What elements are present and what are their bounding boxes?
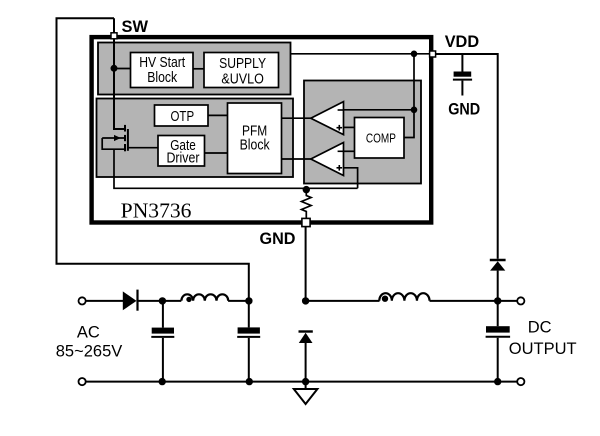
node: C1 junction <box>159 297 166 304</box>
capacitor C2 filter <box>237 301 260 382</box>
svg-text:Driver: Driver <box>167 151 200 167</box>
wire: Gate Driver to PFM Block <box>205 152 228 154</box>
wire: SW node to HV Start Block <box>114 68 131 70</box>
pin VDD <box>430 51 436 57</box>
block: HV Start Block <box>131 53 194 88</box>
svg-text:SW: SW <box>122 18 149 36</box>
node: comparator feedback junction <box>411 107 418 114</box>
terminal: DC output minus <box>517 378 524 385</box>
terminal: AC input bottom <box>79 378 86 385</box>
wire: inductor to DC output <box>430 300 498 302</box>
wire: to DC+ terminal <box>498 300 517 302</box>
diode D1 input rectifier <box>123 290 138 311</box>
wire: comparator2 non-inverting input to sense node <box>344 168 358 189</box>
wire: SW terminal loop to switching node <box>57 18 249 301</box>
wire: comparator1 non-inverting input <box>344 126 355 128</box>
node: C1 bottom junction <box>159 378 166 385</box>
wire: HV Start Block to SUPPLY&UVLO <box>193 68 204 70</box>
inductor L1 input filter <box>181 294 228 302</box>
block: SUPPLY & UVLO <box>204 53 279 88</box>
wire: comparator1 inverting input <box>344 109 415 111</box>
node: ground junction <box>302 378 309 385</box>
ground <box>294 382 318 404</box>
wire: OTP to PFM Block <box>208 114 228 116</box>
terminal: DC output plus <box>517 297 524 304</box>
svg-text:SUPPLY: SUPPLY <box>219 56 266 72</box>
wire: filter to switching node <box>228 300 249 302</box>
wire: AC top rail <box>86 300 123 302</box>
svg-text:GND: GND <box>448 101 480 119</box>
capacitor C1 input filter <box>151 301 174 382</box>
svg-text:DC: DC <box>528 319 552 337</box>
svg-text:Block: Block <box>240 137 271 153</box>
svg-text:&UVLO: &UVLO <box>221 71 264 87</box>
wire: comparator2 inverting input <box>344 150 355 152</box>
block: COMP <box>355 118 405 159</box>
node: sense resistor junction <box>303 186 310 193</box>
op-amp comparator A2 <box>311 143 344 176</box>
shaded region: control section <box>97 99 294 178</box>
wire: source sense rail <box>114 150 358 189</box>
wire: VDD rail to output diode <box>436 54 498 259</box>
capacitor C3 VDD bypass <box>453 54 472 96</box>
block: PFM Block <box>228 103 282 174</box>
node: VDD junction <box>411 51 418 58</box>
node: SW junction <box>111 65 118 72</box>
IC U1 PN3736 outline <box>92 37 432 222</box>
pin GND <box>302 218 310 226</box>
node: GND switching node <box>302 297 309 304</box>
block: OTP <box>155 105 209 126</box>
wire: SW line down to MOSFET drain <box>114 18 125 129</box>
wire: VDD feedback down to COMP <box>404 54 414 138</box>
wire: PFM Block to comparator1 output <box>282 117 313 119</box>
pin SW <box>111 33 117 39</box>
svg-text:HV Start: HV Start <box>139 55 185 71</box>
svg-text:OUTPUT: OUTPUT <box>509 340 577 358</box>
svg-text:PN3736: PN3736 <box>121 199 192 223</box>
svg-text:Block: Block <box>147 70 178 86</box>
svg-text:OTP: OTP <box>171 109 195 125</box>
shaded region: startup section <box>98 43 291 95</box>
wire: PFM Block to comparator2 output <box>282 158 313 160</box>
wire: supply section to VDD pin <box>291 53 431 55</box>
inductor L2 output <box>379 293 429 302</box>
capacitor C4 output <box>486 301 511 382</box>
node: SW switching node <box>245 297 252 304</box>
diode D3 output <box>490 260 506 301</box>
op-amp comparator A1 <box>311 102 344 135</box>
svg-text:GND: GND <box>260 230 296 248</box>
svg-text:COMP: COMP <box>366 131 396 145</box>
wire: rectifier to filter <box>139 300 182 302</box>
block: Gate Driver <box>158 136 205 167</box>
wire: bottom return rail <box>86 381 517 383</box>
svg-text:VDD: VDD <box>445 33 479 51</box>
svg-text:85~265V: 85~265V <box>56 343 123 361</box>
resistor R1 current sense <box>301 188 311 222</box>
wire: switching node to output inductor <box>306 300 380 302</box>
svg-text:AC: AC <box>77 323 100 341</box>
node: C4 bottom junction <box>494 378 501 385</box>
transistor Q1 power MOSFET <box>102 125 158 151</box>
node: DC output junction <box>494 297 501 304</box>
wire: GND pin down to switching node <box>305 223 307 301</box>
diode D2 freewheeling <box>299 332 313 382</box>
terminal: AC input top <box>79 297 86 304</box>
shaded region: comparator section <box>304 81 421 184</box>
node: C2 bottom junction <box>246 378 253 385</box>
